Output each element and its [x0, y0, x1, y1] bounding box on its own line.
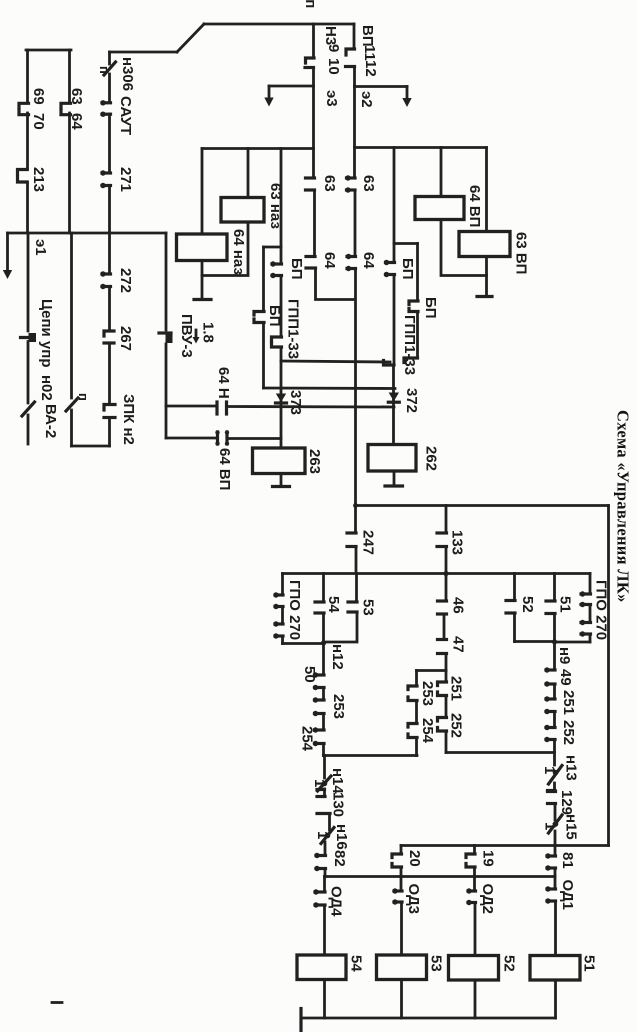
wire line D lower [262, 323, 265, 389]
wire top y24 to VP column [204, 23, 354, 26]
svg-text:БП: БП [288, 258, 305, 280]
contact ГПО 270 (right, double with dots) [580, 574, 591, 643]
svg-text:54: 54 [348, 955, 365, 972]
svg-text:н15: н15 [563, 814, 580, 840]
wire 63наз bottom leg [202, 222, 248, 276]
contact 251 (middle) [438, 682, 447, 716]
wire y876 horizontal [325, 875, 555, 878]
contact 253 (dots) [313, 697, 324, 716]
wire wire755 down to н14 [323, 756, 326, 779]
contact н14 (slash with dot) [317, 776, 331, 791]
svg-text:64: 64 [360, 252, 377, 269]
contact 52 [506, 574, 515, 642]
ground bar under 63ВП [477, 295, 492, 298]
wire between 63 and 64 (right col) [354, 190, 357, 256]
svg-text:САУТ: САУТ [117, 96, 134, 135]
contact 133 [437, 506, 447, 574]
svg-text:130: 130 [330, 792, 347, 817]
svg-text:н13: н13 [563, 755, 580, 781]
wire below ВА-2 [27, 415, 30, 444]
wire 64наз bottom to ground [201, 261, 204, 300]
wire below 213 to bus [26, 182, 29, 233]
wire Н3 column down to rail A [312, 68, 315, 178]
svg-text:Схема «Управления ЛК»: Схема «Управления ЛК» [614, 410, 633, 603]
wire ВП to junction 86 [353, 67, 356, 87]
svg-text:63 ВП: 63 ВП [513, 232, 530, 274]
wire y505 horizontal [356, 504, 609, 507]
svg-text:БП: БП [422, 297, 439, 319]
wire coil54 to bottom bus [323, 980, 326, 1019]
wire column 63/64 upper [68, 50, 71, 101]
contact 51 [546, 574, 555, 642]
wire feed to 64ВП coil [440, 148, 443, 197]
wire line C middle [280, 276, 283, 337]
wire line F lower [416, 312, 419, 358]
wire to left arrow [269, 85, 314, 88]
svg-text:н9: н9 [556, 647, 573, 664]
wire column 69/70 upper [26, 50, 29, 101]
svg-text:БП: БП [266, 305, 283, 327]
wire 254 to wire755 [322, 744, 325, 756]
junction dot at 446/574 [443, 571, 448, 576]
pushbutton ПВУ-3 [159, 333, 173, 343]
contact 63-64 (left pair) [61, 103, 71, 114]
wire stub above contact п [108, 52, 111, 64]
wire п to САУТ [108, 74, 111, 102]
svg-text:252: 252 [448, 713, 465, 738]
column ВП (x354) [353, 24, 356, 48]
relay coil 63 наз [221, 198, 264, 223]
svg-text:49: 49 [557, 669, 574, 686]
wire 49 to 251 [553, 684, 556, 698]
ground bar under 64наз [194, 298, 211, 301]
wire line F [416, 244, 419, 301]
svg-text:БП: БП [399, 258, 416, 280]
contact ВА-2 (slash) [22, 402, 35, 416]
wire Цепи упр branch upper [27, 233, 30, 331]
svg-text:1: 1 [311, 779, 328, 787]
relay coil 262 [368, 445, 416, 472]
wire column x355 upper [353, 87, 356, 178]
svg-text:51: 51 [557, 596, 574, 613]
svg-text:251: 251 [560, 690, 577, 715]
svg-text:272: 272 [117, 268, 134, 293]
svg-text:20: 20 [406, 850, 423, 867]
contact БП (on line E, dots) [384, 260, 395, 277]
wire button to ВА-2 [27, 342, 30, 404]
svg-text:ОД1: ОД1 [559, 880, 576, 911]
svg-text:19: 19 [480, 850, 497, 867]
wire 64Н right segment [229, 405, 395, 408]
contact п (slash, lower branch) [66, 398, 78, 411]
relay coil 53 [377, 955, 427, 980]
wire bottom U horizontal [72, 445, 110, 448]
svg-text:263: 263 [306, 449, 323, 474]
label 1.8 with arrow [193, 322, 217, 344]
svg-text:254: 254 [299, 726, 316, 752]
svg-text:н306: н306 [119, 57, 136, 91]
contact ОД3 (dots) [392, 877, 402, 956]
svg-text:11: 11 [361, 45, 378, 61]
svg-text:63: 63 [360, 175, 377, 192]
svg-text:52: 52 [501, 955, 518, 972]
svg-text:ОД3: ОД3 [405, 884, 422, 915]
wire line E lower [392, 365, 395, 445]
svg-text:253: 253 [419, 681, 436, 706]
relay coil 64 ВП [415, 197, 464, 220]
svg-text:ГПП1-33: ГПП1-33 [285, 299, 302, 359]
contact ОД4 (dots) [313, 889, 325, 907]
wire line C lower [280, 347, 283, 448]
junction dot at 554/642 [552, 639, 557, 644]
line C upper [280, 149, 283, 264]
svg-text:э3: э3 [323, 90, 340, 107]
wire line D upper [262, 247, 265, 311]
wire feed to 63ВП coil [485, 148, 488, 232]
relay coil 51 [530, 956, 580, 981]
relay coil 263 [253, 448, 306, 474]
contact 54 [315, 574, 324, 644]
wire col51 down to 49 [553, 642, 556, 670]
junction dot at node н12 [321, 640, 326, 645]
contact 267 [104, 331, 114, 343]
contact 64 (left column) [306, 257, 316, 269]
arrow down at left end of bus [3, 233, 12, 279]
svg-text:52: 52 [519, 596, 536, 613]
wire п-branch lower [70, 410, 73, 446]
wire 271 to bus [108, 186, 111, 234]
wire to right arrow [355, 85, 408, 88]
svg-text:ЗПК н2: ЗПК н2 [120, 394, 137, 445]
wire coil51 to bottom bus [554, 980, 557, 1018]
svg-text:64 наз: 64 наз [230, 229, 247, 275]
svg-text:51: 51 [581, 955, 598, 972]
wire x416 drop [415, 671, 418, 686]
wire 267 to ЗПК [108, 343, 111, 404]
contact ОД2 (dots) [466, 877, 475, 956]
wire elbow C to D [264, 246, 282, 249]
pushbutton Цепи упр [21, 333, 37, 342]
svg-text:46: 46 [450, 597, 467, 614]
svg-text:э2: э2 [358, 91, 375, 108]
relay coil 54 [297, 955, 346, 980]
wire ПВУ-3 down to 64Н wire [165, 344, 168, 438]
wire cross 388 (D to E) [264, 387, 396, 390]
contact 213 [18, 170, 28, 183]
svg-text:53: 53 [360, 599, 377, 616]
contact 63 (right column, dots) [345, 175, 355, 192]
wire line E middle [393, 275, 396, 365]
svg-text:129: 129 [558, 790, 575, 815]
wire right edge vertical x609 [607, 506, 610, 846]
arrow down (э2) [402, 87, 411, 108]
diode 372 [388, 393, 399, 403]
diode 373 [276, 394, 287, 404]
wire line E upper [393, 148, 396, 262]
svg-text:п: п [76, 393, 91, 401]
contact 53 (parallel with 54) [324, 574, 358, 643]
wire coil52 to bottom bus [474, 980, 477, 1018]
contact ОД1 (dots) [545, 877, 555, 956]
contact 81 (dots) [545, 846, 555, 877]
wire y755 (left net) [324, 754, 418, 757]
contact 19 [466, 846, 475, 877]
svg-text:373: 373 [287, 390, 304, 415]
svg-text:70: 70 [30, 113, 47, 130]
svg-text:47: 47 [450, 636, 467, 653]
relay coil 52 [449, 956, 499, 981]
wire 82 to wire876 [324, 869, 327, 877]
svg-text:372: 372 [403, 388, 420, 413]
wire 253 to 254 [322, 714, 325, 730]
svg-text:254: 254 [419, 718, 436, 744]
wire bus э1 [8, 232, 167, 235]
svg-text:267: 267 [117, 326, 134, 351]
contact 271 with dots [100, 170, 110, 188]
wire top rail A [202, 147, 314, 150]
contact 64 ВП [215, 430, 229, 445]
svg-text:Н3: Н3 [322, 26, 339, 45]
svg-text:э1: э1 [32, 239, 49, 256]
wire column x355 long down to wire505 [354, 269, 357, 506]
column Н3 (x313) [312, 24, 315, 57]
svg-text:ГПО 270: ГПО 270 [593, 580, 610, 640]
svg-text:64 ВП: 64 ВП [466, 185, 483, 227]
wire ОД4 to coil 54 [323, 905, 326, 955]
wire y845 horizontal [401, 844, 609, 847]
relay coil 63 ВП [459, 232, 510, 257]
svg-text:251: 251 [448, 676, 465, 701]
wire coil53 to bottom bus [400, 980, 403, 1019]
contact 253 (middle branch) [408, 686, 417, 723]
wire elbow ГПО270-right to col51 [555, 641, 591, 644]
wire junction to ОД4 [323, 877, 326, 892]
terminal bar bottom left [299, 1009, 302, 1031]
contact БП (on line D) [254, 312, 264, 323]
svg-text:253: 253 [330, 694, 347, 719]
contact 64 Н [217, 402, 227, 414]
wire 64ВП right segment [229, 437, 281, 440]
contact 272 with dots [100, 271, 110, 289]
svg-text:53: 53 [428, 955, 445, 972]
wire 63ВП bottom to ground [485, 257, 488, 297]
contact 251 (right, dots) [544, 696, 555, 714]
svg-text:н12: н12 [329, 644, 346, 670]
contact 82 (dots) [314, 853, 325, 871]
contact 129 [548, 783, 556, 820]
wire 251 to 252 [553, 712, 556, 727]
svg-text:247: 247 [360, 530, 377, 555]
svg-text:ПВУ-3: ПВУ-3 [178, 314, 195, 358]
contact н16 (slash with dot) [321, 828, 334, 844]
relay coil 64 наз [177, 234, 228, 261]
contact 254 (middle branch) [408, 724, 417, 756]
contact 247 [347, 506, 356, 574]
svg-text:ГПП1-33: ГПП1-33 [401, 315, 418, 375]
wire 262 to ground [393, 471, 396, 486]
svg-text:ГПО 270: ГПО 270 [286, 580, 303, 640]
contact 252 (right, dots) [544, 725, 555, 742]
svg-text:64: 64 [321, 252, 338, 269]
svg-text:10: 10 [325, 58, 342, 75]
contact 69-70 [19, 103, 29, 114]
svg-text:54: 54 [325, 596, 342, 613]
stray dash artifact [52, 1001, 62, 1004]
contact ГПП1-33 (right) [384, 358, 418, 365]
svg-text:1: 1 [542, 822, 559, 830]
wire 64ВП left segment [166, 437, 215, 440]
wire elbow 47-node to x416 [417, 669, 447, 672]
wire bus corner down at x166 [165, 233, 168, 330]
wire 64Н left segment [166, 405, 215, 408]
contact 46 [438, 574, 447, 639]
wire п-branch to bus [70, 233, 73, 398]
contact 130 [317, 789, 330, 830]
wire diagonal [177, 24, 204, 52]
wire elbow 52 to col51 [515, 640, 555, 643]
svg-text:Цепи упр: Цепи упр [38, 299, 55, 368]
contact 50 (dots) [313, 672, 324, 690]
svg-text:ОД4: ОД4 [328, 886, 345, 917]
wire node н12 down [322, 644, 325, 675]
wire ЗПК to bottom U [108, 418, 111, 447]
svg-text:12: 12 [362, 60, 379, 77]
wire horizontal y52 [110, 51, 178, 54]
wire 252 down through node to н13 [553, 740, 556, 766]
wire bus to 272 [108, 233, 111, 273]
contact САУТ with dots [100, 100, 110, 117]
ground bar under 263 [273, 485, 290, 488]
contact 252 (middle) [438, 718, 447, 753]
wire feed to 63наз coil [247, 149, 250, 198]
wire main bus y574 [283, 572, 591, 575]
svg-text:81: 81 [559, 852, 576, 869]
wire top rail B [355, 146, 487, 149]
contact н15 (slash with dot) [549, 815, 563, 833]
contact 49 (dots) [544, 667, 555, 686]
contact н13 (slash with dot) [548, 766, 563, 791]
svg-text:ип: ип [302, 0, 319, 8]
svg-text:63: 63 [321, 175, 338, 192]
svg-text:213: 213 [30, 167, 47, 192]
svg-text:н14: н14 [329, 768, 346, 794]
contact БП (on line C, dots) [270, 261, 281, 278]
svg-text:50: 50 [301, 666, 318, 683]
contact Н3 9-10 [305, 58, 314, 68]
contact п (slash) [104, 62, 116, 75]
wire elbow ГПО270 to col54/col53 node [283, 642, 324, 645]
svg-text:ВА-2: ВА-2 [42, 404, 59, 438]
svg-text:1: 1 [314, 831, 331, 839]
contact 47 [438, 640, 447, 671]
wire н15 to wire845 [554, 831, 557, 846]
contact ВП 11-12 [346, 49, 355, 67]
svg-text:н16: н16 [333, 824, 350, 850]
svg-text:82: 82 [331, 850, 348, 867]
svg-text:133: 133 [449, 530, 466, 555]
contact ГПО 270 (left, double with dots) [273, 574, 283, 644]
arrow down (э3) [264, 86, 273, 107]
wire top bar of 69/63 columns [26, 49, 71, 52]
svg-text:69: 69 [30, 88, 47, 105]
svg-text:н02: н02 [38, 375, 55, 401]
wire 272 to 267 [108, 287, 111, 331]
svg-text:252: 252 [560, 720, 577, 745]
wire y752 (right net) [446, 751, 555, 754]
wire н16 to 82 [324, 842, 327, 855]
wire 263 to ground [280, 474, 283, 487]
wire column below 70 [26, 113, 29, 170]
svg-text:271: 271 [117, 167, 134, 192]
wire 64ВП bottom leg [441, 220, 487, 276]
svg-text:1.8: 1.8 [200, 322, 217, 343]
svg-text:ОД2: ОД2 [479, 884, 496, 915]
contact ЗПК н2 [104, 405, 115, 418]
wire 47-node down to 251 [445, 671, 448, 682]
svg-text:64 Н: 64 Н [215, 367, 232, 399]
wire left col elbow to x355 [316, 268, 356, 300]
junction dot at 355/505 [353, 503, 358, 508]
ground bar under 262 [385, 484, 403, 487]
wire feed to 64наз coil [201, 149, 204, 235]
contact 63 (left column) [306, 178, 315, 190]
contact БП (on line F) [409, 301, 418, 312]
wire САУТ to 271 [108, 114, 111, 172]
svg-text:262: 262 [423, 446, 440, 471]
wire elbow E to F [394, 242, 418, 245]
svg-text:9: 9 [325, 44, 342, 52]
svg-text:ВП: ВП [359, 25, 376, 47]
contact 254 (dots) [313, 727, 324, 746]
svg-text:64 ВП: 64 ВП [216, 448, 233, 490]
wire bottom bus [301, 1017, 556, 1020]
wire 50 to 253 [322, 688, 325, 700]
wire column 63/64 to bus [68, 113, 71, 233]
contact 20 [392, 846, 402, 877]
contact 64 (right column, dots) [346, 254, 356, 271]
svg-text:1: 1 [541, 766, 558, 774]
wire between 63 and 64 (left col) [313, 190, 316, 256]
wire cross 361 (C to E) [281, 361, 390, 362]
contact ГПП1-33 (left) [272, 337, 282, 347]
svg-text:63: 63 [68, 88, 85, 105]
